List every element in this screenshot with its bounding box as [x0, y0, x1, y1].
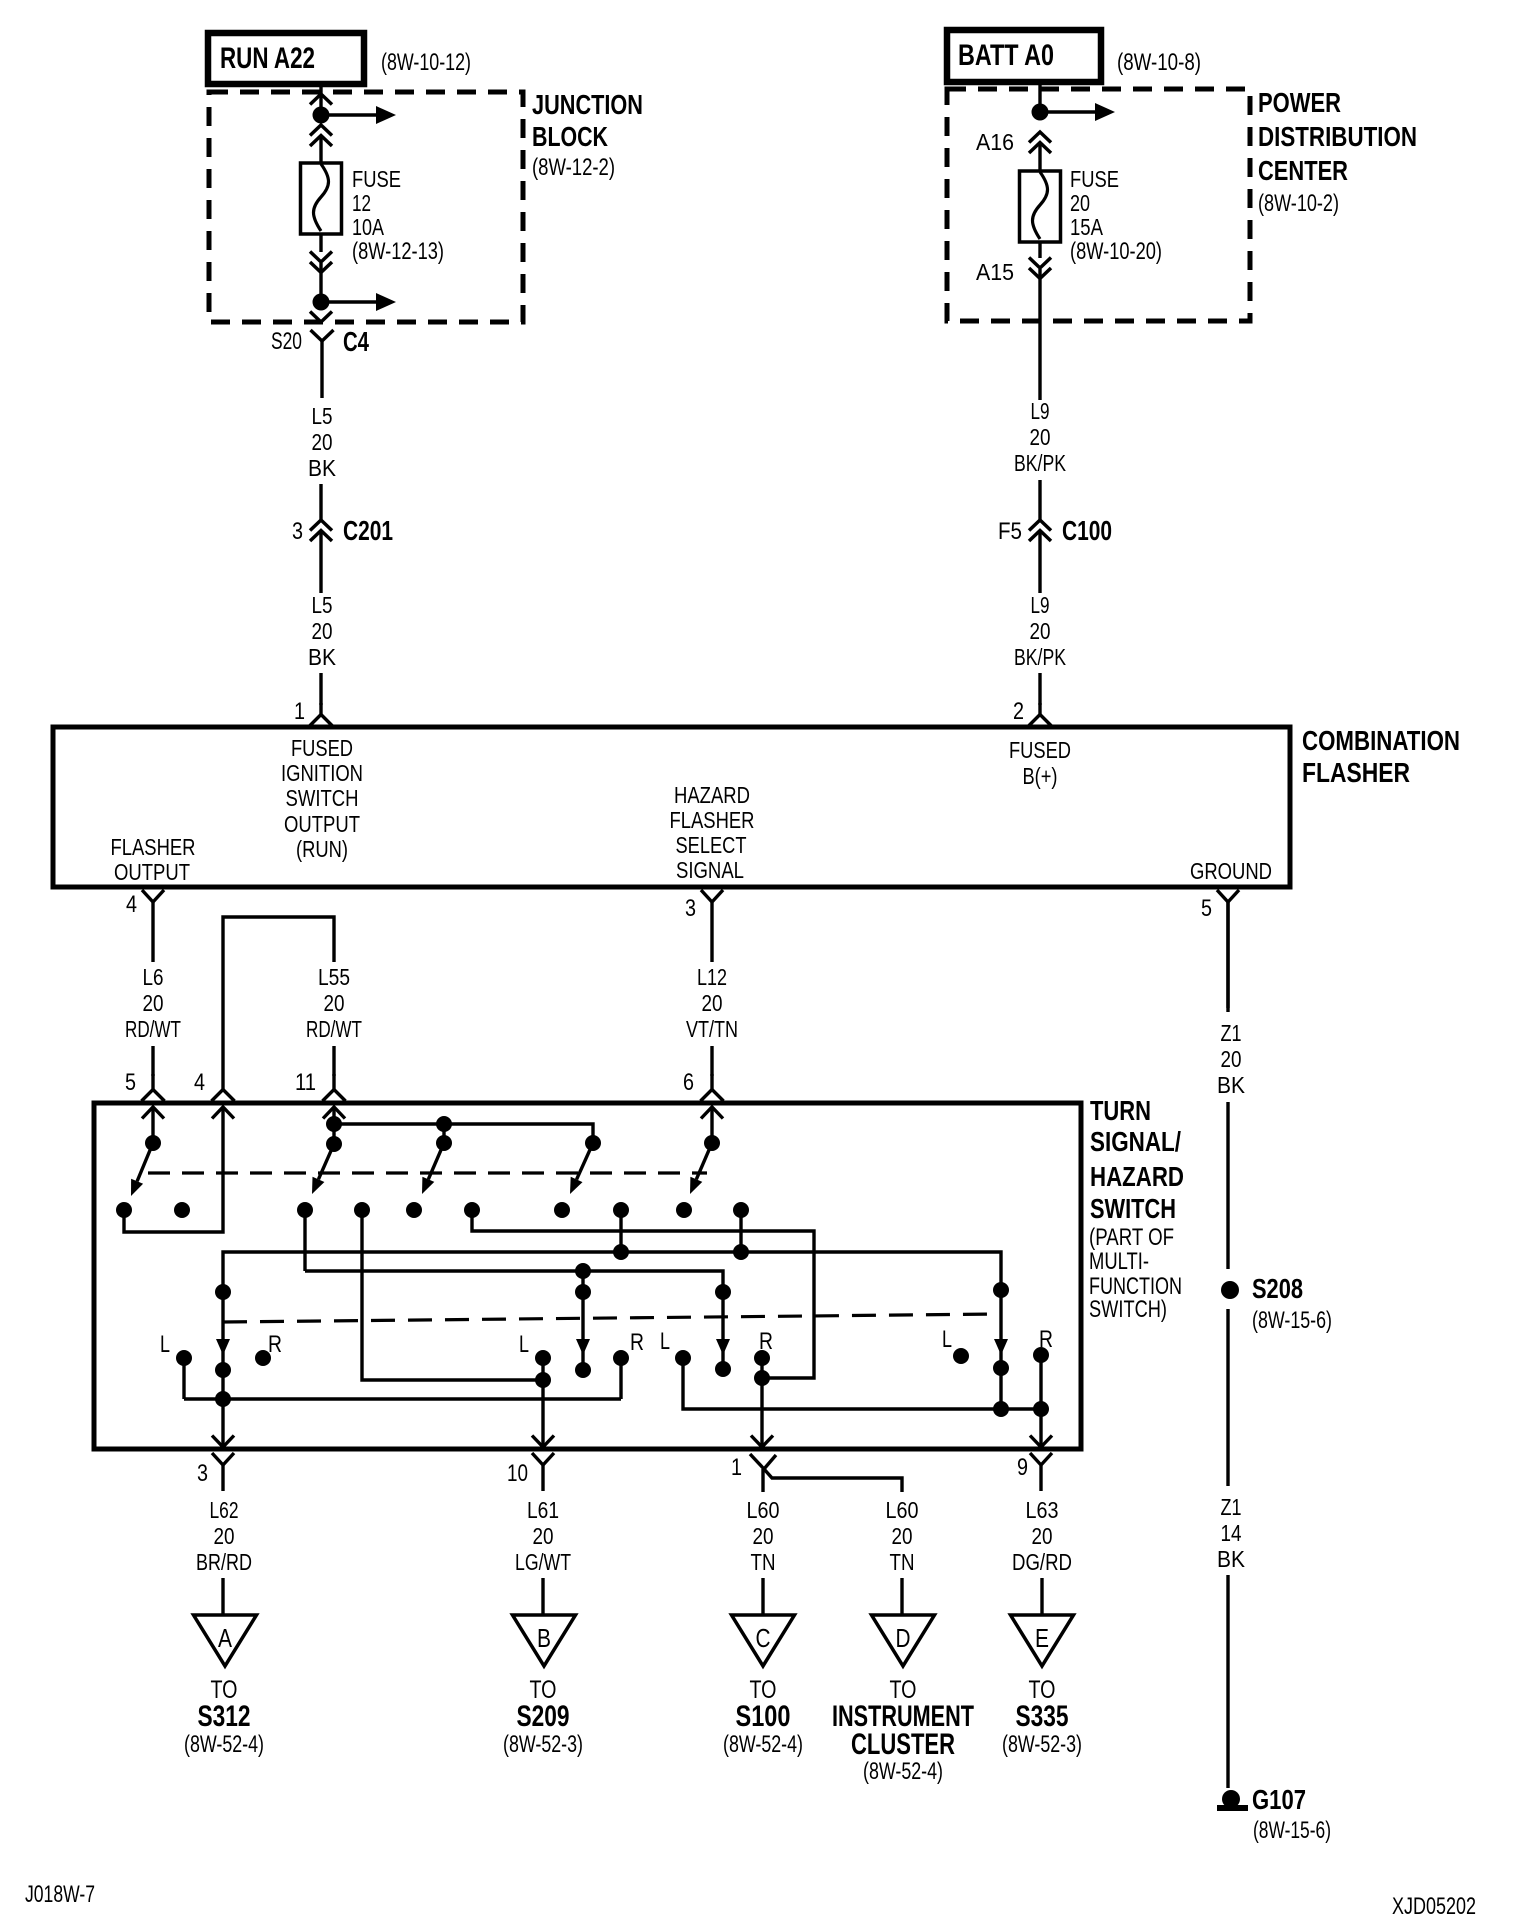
svg-text:COMBINATION: COMBINATION	[1302, 725, 1460, 756]
svg-text:FLASHER: FLASHER	[1302, 757, 1410, 788]
svg-text:Z1: Z1	[1221, 1020, 1242, 1046]
bus A wire (pin 3 wiper feed)	[223, 1252, 1001, 1449]
svg-text:D: D	[896, 1623, 911, 1653]
contact dot R (group 2)	[613, 1350, 629, 1366]
svg-text:(PART OF: (PART OF	[1089, 1224, 1174, 1251]
power feed box RUN A22	[208, 33, 364, 84]
contact dot R (group 4)	[1033, 1347, 1049, 1363]
wire segment	[221, 1578, 224, 1616]
switch entry chevron pin 6	[701, 1107, 723, 1119]
switch entry chevron pin 11	[323, 1107, 345, 1119]
svg-text:B(+): B(+)	[1023, 763, 1058, 789]
wire segment	[151, 1046, 154, 1076]
wire segment to combination flasher pin 1	[319, 673, 322, 705]
junction block dashed enclosure (8W-12-2)	[209, 92, 523, 322]
svg-text:G107: G107	[1252, 1784, 1306, 1815]
svg-text:R: R	[630, 1329, 644, 1356]
svg-text:1: 1	[731, 1454, 742, 1481]
svg-text:L: L	[942, 1326, 952, 1353]
node: pin 10 bus junction	[535, 1372, 551, 1388]
svg-text:S100: S100	[736, 1700, 791, 1733]
svg-text:20: 20	[143, 990, 164, 1016]
wire: L contact to bottom bus	[683, 1358, 1041, 1409]
wire segment	[332, 1046, 335, 1076]
wire segment	[1038, 531, 1041, 593]
svg-text:E: E	[1035, 1623, 1049, 1653]
svg-text:10: 10	[507, 1460, 528, 1487]
svg-text:F5: F5	[998, 518, 1022, 545]
node: bus A tap 1	[613, 1244, 629, 1260]
wire segment	[710, 1046, 713, 1076]
svg-text:DG/RD: DG/RD	[1012, 1549, 1072, 1575]
off-page connector C	[732, 1615, 795, 1666]
contact dot pole 1 unused	[174, 1202, 190, 1218]
svg-text:11: 11	[295, 1069, 316, 1096]
svg-text:OUTPUT: OUTPUT	[284, 811, 360, 837]
svg-text:20: 20	[312, 618, 333, 644]
wiper contact dot (mid-right)	[715, 1361, 731, 1377]
node: bottom bus to pin 9	[1033, 1401, 1049, 1417]
contact dot (to pin 1 bus)	[464, 1202, 480, 1218]
wire bracket from switch pin 4 to L55	[223, 917, 334, 1090]
svg-text:CLUSTER: CLUSTER	[851, 1728, 955, 1761]
svg-text:20: 20	[753, 1523, 774, 1549]
wire: pin 10 exit	[541, 1358, 544, 1449]
node: tap to pole 2a pivot	[436, 1116, 452, 1132]
svg-text:FUSE: FUSE	[352, 166, 401, 192]
node: junction block lower splice S20	[313, 294, 330, 311]
contact dot R (group 3)	[754, 1350, 770, 1366]
svg-text:OUTPUT: OUTPUT	[114, 859, 190, 885]
switch exit chevron pin 1	[751, 1436, 773, 1448]
svg-text:(8W-10-8): (8W-10-8)	[1117, 49, 1201, 76]
ground wire from flasher pin 5	[1226, 902, 1229, 1012]
svg-text:L55: L55	[318, 964, 350, 990]
svg-text:2: 2	[1013, 698, 1024, 725]
svg-text:3: 3	[292, 518, 303, 545]
pole 2 wiper arm	[318, 1144, 334, 1179]
wiper pivot dot (pin 3)	[215, 1284, 231, 1300]
svg-text:C4: C4	[343, 326, 369, 357]
svg-text:20: 20	[1032, 1523, 1053, 1549]
svg-text:R: R	[268, 1331, 282, 1358]
svg-text:(8W-52-3): (8W-52-3)	[1002, 1731, 1082, 1758]
connector C201 chevrons, pin 3	[310, 520, 332, 531]
svg-text:FUSE: FUSE	[1070, 166, 1119, 192]
contact dot (bus A tap 2)	[733, 1202, 749, 1218]
svg-text:(8W-10-20): (8W-10-20)	[1070, 238, 1162, 265]
wire: pin 9 exit	[1039, 1355, 1042, 1449]
svg-text:4: 4	[126, 891, 137, 918]
svg-text:15A: 15A	[1070, 214, 1104, 240]
svg-text:(8W-12-2): (8W-12-2)	[532, 154, 615, 181]
svg-text:RD/WT: RD/WT	[125, 1016, 181, 1042]
svg-text:HAZARD: HAZARD	[674, 782, 750, 808]
contact dot (bus A tap 1)	[613, 1202, 629, 1218]
svg-text:20: 20	[702, 990, 723, 1016]
svg-text:POWER: POWER	[1258, 87, 1341, 118]
wire segment	[761, 1578, 764, 1616]
svg-text:L9: L9	[1031, 398, 1050, 424]
svg-text:(8W-52-3): (8W-52-3)	[503, 1731, 583, 1758]
pole 4 wiper arm	[696, 1143, 712, 1179]
svg-text:GROUND: GROUND	[1190, 858, 1272, 884]
svg-text:S209: S209	[517, 1700, 570, 1733]
node: bus B tap	[575, 1263, 591, 1279]
svg-text:C: C	[756, 1623, 771, 1653]
svg-text:BLOCK: BLOCK	[532, 121, 608, 152]
svg-text:SWITCH): SWITCH)	[1089, 1296, 1167, 1323]
svg-text:S335: S335	[1016, 1700, 1069, 1733]
wire: L contact to L-bus	[182, 1358, 185, 1399]
svg-text:(8W-15-6): (8W-15-6)	[1252, 1307, 1332, 1334]
svg-text:L: L	[160, 1331, 170, 1358]
node: pin 11 junction	[326, 1116, 342, 1132]
svg-text:(8W-52-4): (8W-52-4)	[184, 1731, 264, 1758]
wire: contact down to pin 10 bus	[362, 1210, 543, 1380]
svg-text:JUNCTION: JUNCTION	[532, 89, 643, 120]
splice node S208	[1221, 1281, 1239, 1299]
svg-text:S208: S208	[1252, 1273, 1303, 1304]
svg-text:5: 5	[1201, 895, 1212, 922]
wire segment	[1226, 1102, 1229, 1269]
wire segment	[1226, 1309, 1229, 1486]
svg-text:BK/PK: BK/PK	[1014, 450, 1066, 476]
fuse 12 10A	[301, 163, 342, 234]
wire: tap down to bus A	[739, 1210, 742, 1251]
svg-text:20: 20	[1030, 424, 1051, 450]
contact dot (to pin 10 bus)	[354, 1202, 370, 1218]
bus B wire (pole 2 to wiper 3)	[305, 1271, 723, 1369]
wire segment	[1040, 1578, 1043, 1616]
wire: top bus to pole 3 pivot	[334, 1124, 593, 1143]
wiper pivot dot (mid-right)	[715, 1284, 731, 1300]
node: pole 3 pivot	[585, 1135, 601, 1151]
off-page connector B	[513, 1615, 576, 1666]
svg-text:SIGNAL: SIGNAL	[676, 857, 744, 883]
power feed box BATT A0	[947, 30, 1101, 82]
wiper arrowhead (pin 3)	[216, 1339, 230, 1355]
node: pole 2 pivot	[326, 1136, 342, 1152]
svg-text:BK: BK	[308, 455, 337, 481]
contact dot pole 3	[554, 1202, 570, 1218]
wiper contact dot (mid-left)	[575, 1362, 591, 1378]
L-bus wire	[184, 1397, 621, 1400]
wire below fuse	[1038, 242, 1041, 258]
svg-text:RUN A22: RUN A22	[220, 42, 315, 75]
svg-text:L6: L6	[143, 964, 164, 990]
off-page connector A	[194, 1615, 257, 1666]
svg-text:10A: 10A	[352, 214, 385, 240]
wire: pole 2 contact down to bus B	[303, 1210, 306, 1271]
wire to fuse	[319, 136, 322, 164]
svg-text:A: A	[218, 1623, 233, 1653]
turn signal / hazard switch box	[94, 1103, 1081, 1449]
wire segment	[1038, 480, 1041, 521]
contact dot pole 1 left	[116, 1202, 132, 1218]
wire segment	[319, 531, 322, 593]
contact dot pole 4	[676, 1202, 692, 1218]
wire tap arrow right	[1040, 110, 1096, 113]
switch mechanical link dashed line (upper)	[148, 1171, 707, 1174]
svg-text:L60: L60	[886, 1497, 919, 1523]
wire segment	[900, 1578, 903, 1616]
svg-text:BATT A0: BATT A0	[958, 39, 1054, 72]
wire segment	[541, 1578, 544, 1616]
svg-text:L5: L5	[312, 592, 333, 618]
svg-text:L5: L5	[312, 403, 333, 429]
wire below fuse	[319, 234, 322, 252]
wiper arrowhead (mid-left)	[576, 1339, 590, 1355]
svg-text:LG/WT: LG/WT	[515, 1549, 571, 1575]
svg-text:BK: BK	[308, 644, 337, 670]
svg-text:L: L	[660, 1328, 670, 1355]
node: bus A tap 2	[733, 1244, 749, 1260]
svg-text:FLASHER: FLASHER	[670, 807, 755, 833]
svg-text:(RUN): (RUN)	[296, 836, 348, 862]
wire: RUN A22 feed into junction block	[319, 85, 322, 96]
svg-text:4: 4	[194, 1069, 205, 1096]
contact dot pole 2a	[406, 1202, 422, 1218]
svg-text:SWITCH: SWITCH	[286, 785, 359, 811]
svg-text:RD/WT: RD/WT	[306, 1016, 362, 1042]
svg-text:SELECT: SELECT	[676, 832, 747, 858]
svg-text:B: B	[537, 1623, 551, 1653]
svg-text:A15: A15	[976, 259, 1014, 285]
wire: pole1 contact to pin 4 riser	[124, 1107, 223, 1232]
node: right-R bus junction	[754, 1370, 770, 1386]
svg-text:(8W-12-13): (8W-12-13)	[352, 238, 444, 265]
svg-text:20: 20	[312, 429, 333, 455]
svg-text:(8W-10-12): (8W-10-12)	[381, 49, 471, 76]
svg-text:L9: L9	[1031, 592, 1050, 618]
combination flasher box	[53, 727, 1290, 887]
svg-text:20: 20	[1221, 1046, 1242, 1072]
power distribution center dashed enclosure (8W-10-2)	[947, 89, 1250, 321]
connector chevrons up	[310, 125, 332, 136]
connector C100 chevrons, pin F5	[1029, 520, 1051, 531]
svg-text:BR/RD: BR/RD	[196, 1549, 252, 1575]
connector chevrons down, pin A15	[1029, 258, 1051, 269]
svg-text:(8W-10-2): (8W-10-2)	[1258, 190, 1339, 217]
svg-text:A16: A16	[976, 129, 1014, 155]
wire: pin 1 exit	[760, 1358, 763, 1449]
svg-text:FLASHER: FLASHER	[111, 834, 196, 860]
svg-text:S312: S312	[198, 1700, 251, 1733]
contact dot L (group 3)	[675, 1350, 691, 1366]
svg-text:TURN: TURN	[1090, 1095, 1151, 1126]
svg-text:CENTER: CENTER	[1258, 155, 1348, 186]
wire exits PDC	[1038, 269, 1041, 400]
node: bottom bus tap	[993, 1401, 1009, 1417]
svg-text:5: 5	[125, 1069, 136, 1096]
svg-text:C100: C100	[1062, 515, 1112, 546]
wire: BATT A0 feed into PDC	[1038, 84, 1041, 113]
svg-text:L60: L60	[747, 1497, 780, 1523]
svg-text:L61: L61	[527, 1497, 559, 1523]
switch entry chevron pin 5	[142, 1107, 164, 1119]
svg-text:BK/PK: BK/PK	[1014, 644, 1066, 670]
switch exit chevron pin 10	[532, 1436, 554, 1448]
wire segment to ground	[1226, 1575, 1229, 1788]
svg-text:IGNITION: IGNITION	[281, 760, 363, 786]
svg-text:TN: TN	[890, 1549, 915, 1575]
wire: contact to right-R bus	[472, 1210, 814, 1378]
svg-text:TN: TN	[751, 1549, 776, 1575]
connector chevrons down	[310, 252, 332, 263]
svg-text:SIGNAL/: SIGNAL/	[1090, 1126, 1181, 1157]
node: pole 4 pivot	[704, 1135, 720, 1151]
svg-text:12: 12	[352, 190, 371, 216]
wire to lower splice	[319, 263, 322, 303]
wire segment	[319, 484, 322, 521]
wire tap arrow right (lower)	[321, 300, 377, 303]
pole 1 wiper arm	[137, 1143, 153, 1181]
wiper contact dot (pin 9)	[993, 1360, 1009, 1376]
svg-text:14: 14	[1221, 1520, 1242, 1546]
switch exit chevron pin 9	[1030, 1436, 1052, 1448]
contact dot pole 2	[297, 1202, 313, 1218]
svg-text:L: L	[519, 1331, 529, 1358]
node: pin 3 to L-bus junction	[215, 1391, 231, 1407]
off-page connector D	[872, 1615, 935, 1666]
svg-text:20: 20	[1030, 618, 1051, 644]
connector chevrons up, pin A16	[1029, 132, 1051, 143]
switch exit chevron pin 3	[212, 1436, 234, 1448]
ground G107	[1222, 1790, 1240, 1808]
svg-text:SWITCH: SWITCH	[1090, 1193, 1176, 1224]
wiper pivot dot (mid-left)	[575, 1284, 591, 1300]
fuse 20 15A	[1020, 171, 1061, 242]
svg-text:DISTRIBUTION: DISTRIBUTION	[1258, 121, 1417, 152]
svg-text:VT/TN: VT/TN	[686, 1016, 738, 1042]
wiper arrowhead (pin 9)	[994, 1339, 1008, 1355]
exit chevron down	[310, 312, 332, 323]
node: PDC splice	[1032, 104, 1049, 121]
svg-text:FUSED: FUSED	[1009, 737, 1071, 763]
svg-text:J018W-7: J018W-7	[25, 1881, 95, 1908]
svg-text:20: 20	[1070, 190, 1090, 216]
node: pole 2a pivot	[436, 1135, 452, 1151]
wire: wiper 2 drop	[581, 1271, 584, 1370]
svg-text:HAZARD: HAZARD	[1090, 1161, 1184, 1192]
svg-text:1: 1	[294, 698, 305, 725]
svg-text:6: 6	[683, 1069, 694, 1096]
wiper pivot dot (pin 9)	[993, 1282, 1009, 1298]
svg-text:L63: L63	[1026, 1497, 1059, 1523]
svg-text:MULTI-: MULTI-	[1089, 1248, 1149, 1275]
svg-text:Z1: Z1	[1221, 1494, 1242, 1520]
contact dot R (group 1)	[255, 1350, 271, 1366]
svg-text:FUSED: FUSED	[291, 735, 353, 761]
wire to fuse	[1038, 143, 1041, 172]
svg-text:20: 20	[533, 1523, 554, 1549]
wire segment to combination flasher pin 2	[1038, 673, 1041, 705]
connector C4 fork	[311, 330, 323, 341]
svg-text:BK: BK	[1217, 1546, 1246, 1572]
svg-text:3: 3	[685, 895, 696, 922]
svg-text:20: 20	[214, 1523, 235, 1549]
svg-text:S20: S20	[271, 328, 302, 355]
node: junction block upper splice	[313, 107, 330, 124]
svg-text:20: 20	[892, 1523, 913, 1549]
wiper arrowhead (mid-right)	[716, 1339, 730, 1355]
svg-text:9: 9	[1017, 1454, 1028, 1481]
svg-text:BK: BK	[1217, 1072, 1246, 1098]
switch mechanical link dashed line (lower)	[223, 1314, 1001, 1322]
svg-text:XJD05202: XJD05202	[1392, 1893, 1476, 1920]
wire tap arrow right (upper)	[321, 113, 377, 116]
svg-text:(8W-15-6): (8W-15-6)	[1253, 1817, 1331, 1844]
wiper contact dot (pin 3)	[215, 1362, 231, 1378]
off-page connector E	[1011, 1615, 1074, 1666]
node: pole 1 pivot	[145, 1135, 161, 1151]
pole 2a wiper arm	[428, 1143, 444, 1179]
pole 3 wiper arm	[577, 1143, 593, 1179]
svg-text:C201: C201	[343, 515, 393, 546]
contact dot L (group 4)	[953, 1348, 969, 1364]
switch entry chevron pin 4	[212, 1107, 234, 1119]
contact dot L (group 2)	[535, 1350, 551, 1366]
wire: R contact (group 2) to L-bus	[619, 1358, 622, 1399]
svg-text:20: 20	[324, 990, 345, 1016]
svg-text:3: 3	[197, 1460, 208, 1487]
svg-text:L12: L12	[697, 964, 727, 990]
svg-text:(8W-52-4): (8W-52-4)	[863, 1758, 943, 1785]
svg-text:L62: L62	[210, 1497, 239, 1523]
svg-text:(8W-52-4): (8W-52-4)	[723, 1731, 803, 1758]
wire: tap down to bus A	[619, 1210, 622, 1251]
